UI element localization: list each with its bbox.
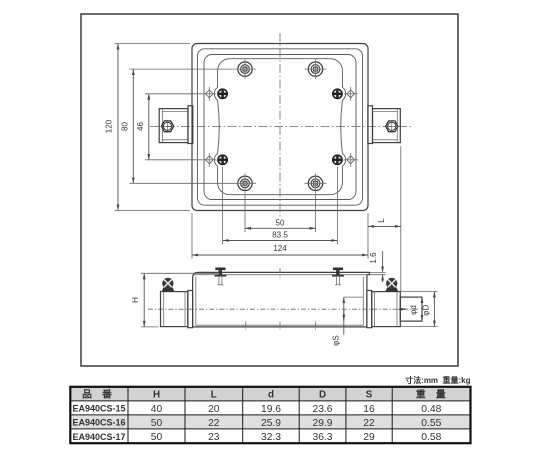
svg-text:29.9: 29.9 <box>312 418 332 429</box>
table row 15 <box>73 404 442 415</box>
svg-text:19.6: 19.6 <box>261 404 281 415</box>
right conduit hub inner lines <box>396 109 398 143</box>
svg-text:φD: φD <box>422 304 431 315</box>
svg-text:16: 16 <box>363 404 375 415</box>
svg-text:80: 80 <box>120 122 129 131</box>
diamond mark bottom-right <box>344 153 358 167</box>
svg-text:品: 品 <box>82 389 92 401</box>
box inner wavy outline <box>214 59 345 195</box>
svg-text:寸法:mm 重量:kg: 寸法:mm 重量:kg <box>405 375 470 385</box>
dim L line <box>368 225 401 227</box>
side screw bottom-left (black) <box>218 155 227 164</box>
svg-text:25.9: 25.9 <box>261 418 281 429</box>
table row 17 <box>73 432 442 443</box>
left conduit top screw (side) <box>162 278 175 292</box>
svg-text:H: H <box>153 390 160 401</box>
svg-text:32.3: 32.3 <box>261 432 281 443</box>
dim 80 extension top <box>130 68 235 70</box>
svg-text:EA940CS-16: EA940CS-16 <box>73 418 126 428</box>
svg-text:0.55: 0.55 <box>421 418 441 429</box>
right conduit hub inner line <box>374 292 376 327</box>
corner screw top-right <box>305 59 327 79</box>
svg-text:46: 46 <box>136 122 145 131</box>
svg-text:83.5: 83.5 <box>272 231 288 240</box>
svg-text:124: 124 <box>273 244 287 253</box>
right conduit flange <box>368 106 373 144</box>
dim 1.6 leader <box>382 251 384 272</box>
dim 80 line <box>132 69 134 183</box>
dim 83.5 extension right <box>336 167 338 244</box>
svg-text:D: D <box>319 390 326 401</box>
corner screw top-left <box>234 59 256 79</box>
diamond mark top-right <box>344 87 358 101</box>
svg-text:φS: φS <box>331 335 340 346</box>
left conduit hex nut <box>161 120 174 133</box>
svg-text:EA940CS-15: EA940CS-15 <box>73 404 126 414</box>
dim 1.6 extension bottom <box>369 274 386 276</box>
svg-text:重: 重 <box>416 388 426 401</box>
dim 120 line <box>117 44 119 211</box>
left conduit hub inner line <box>161 109 163 143</box>
dim 120 extension top <box>115 43 191 45</box>
dim phi-D extension bottom <box>401 326 438 328</box>
dim 83.5 extension left <box>222 167 224 244</box>
left conduit hub inner line <box>163 292 165 327</box>
box outer outline <box>192 44 368 211</box>
dim 50 extension right <box>315 194 317 233</box>
dim 80 extension bottom <box>130 182 235 184</box>
dim phi-S extension top <box>344 296 363 298</box>
dim 1.6 lower arrow <box>382 275 384 282</box>
lid screw right (side) <box>332 268 344 285</box>
top center tick <box>279 268 281 279</box>
dim L extension right (long, joins side view) <box>400 146 402 291</box>
dim 120 extension bottom <box>115 210 191 212</box>
svg-text:40: 40 <box>151 404 163 415</box>
left conduit hub <box>159 109 188 143</box>
dim 50 extension left <box>244 194 246 233</box>
right conduit hub (side) <box>372 292 401 327</box>
bottom center tick left <box>245 322 247 332</box>
table outer border <box>70 387 470 443</box>
body inner right wall <box>362 277 364 326</box>
table header background <box>70 387 470 401</box>
dim H line <box>143 273 145 327</box>
horizontal centerline <box>150 126 412 128</box>
svg-text:36.3: 36.3 <box>312 432 332 443</box>
dim phi-D line <box>433 292 435 327</box>
svg-text:23.6: 23.6 <box>312 404 332 415</box>
svg-text:量: 量 <box>436 388 446 401</box>
svg-text:d: d <box>268 390 274 401</box>
centerline arrow <box>398 308 407 310</box>
dim phi-S line <box>343 297 345 334</box>
svg-text:S: S <box>366 390 373 401</box>
box gasket outline <box>204 55 356 200</box>
svg-text:L: L <box>211 390 217 401</box>
dim phi-d line <box>421 297 423 321</box>
dim 124 extension left <box>191 213 193 259</box>
svg-text:20: 20 <box>208 404 220 415</box>
lid screw left (side) <box>215 268 227 285</box>
svg-text:22: 22 <box>208 418 220 429</box>
left conduit flange <box>188 106 193 144</box>
svg-text:L: L <box>377 218 386 223</box>
table row16 background <box>70 415 470 429</box>
svg-text:29: 29 <box>363 432 375 443</box>
left conduit hub (side) <box>161 292 188 327</box>
table grid horizontals <box>70 401 470 429</box>
svg-text:番: 番 <box>101 388 112 401</box>
dim 46 line <box>148 94 150 160</box>
dim phi-D extension top <box>401 291 438 293</box>
box lid outline <box>198 49 363 205</box>
dim phi-S arrow bottom <box>343 309 345 321</box>
dim 46 extension top <box>145 93 202 95</box>
right conduit hex nut <box>385 120 398 133</box>
dim H extension top <box>141 272 218 274</box>
svg-text:H: H <box>131 297 140 303</box>
table row 16 <box>73 418 442 429</box>
corner screw bottom-left <box>234 174 256 194</box>
side view horizontal centerline <box>148 308 420 310</box>
svg-text:50: 50 <box>151 432 163 443</box>
body inner bottom <box>196 324 363 326</box>
left conduit hub inner horizontals <box>162 110 188 112</box>
dim 1.6 extension top <box>369 271 386 273</box>
right conduit top screw (side) <box>385 278 398 292</box>
svg-text:φd: φd <box>409 305 418 315</box>
svg-text:EA940CS-17: EA940CS-17 <box>73 432 126 442</box>
body inner left wall <box>195 277 197 326</box>
side screw bottom-right (black) <box>333 155 342 164</box>
table grid verticals <box>128 387 392 443</box>
side screw top-right (black) <box>333 89 342 98</box>
right conduit hub <box>373 109 401 143</box>
svg-text:50: 50 <box>151 418 163 429</box>
dim 46 extension bottom <box>145 159 202 161</box>
bottom center tick middle <box>279 322 281 332</box>
diamond mark bottom-left <box>202 153 216 167</box>
svg-text:22: 22 <box>363 418 375 429</box>
body outline <box>193 272 370 327</box>
svg-text:23: 23 <box>208 432 220 443</box>
dim H extension bottom <box>141 326 159 328</box>
bottom center tick right <box>315 322 317 332</box>
drawing frame <box>81 14 458 366</box>
svg-text:120: 120 <box>105 119 114 133</box>
dim 124 extension right <box>367 213 369 259</box>
svg-text:1.6: 1.6 <box>369 252 378 264</box>
svg-text:0.58: 0.58 <box>421 432 441 443</box>
svg-text:0.48: 0.48 <box>421 404 441 415</box>
right conduit flange (side) <box>367 291 372 328</box>
right conduit nipple (side) <box>400 297 422 321</box>
vertical centerline <box>279 33 281 219</box>
table header labels <box>82 388 446 401</box>
side screw top-left (black) <box>218 89 227 98</box>
dim 83.5 line <box>223 240 338 242</box>
dim 50 line <box>245 227 316 229</box>
svg-text:50: 50 <box>276 218 285 227</box>
corner screw bottom-right <box>305 174 327 194</box>
dim 124 line <box>192 254 368 256</box>
diamond mark top-left <box>202 87 216 101</box>
lid bottom line <box>193 274 367 276</box>
left conduit flange (side) <box>188 291 193 328</box>
